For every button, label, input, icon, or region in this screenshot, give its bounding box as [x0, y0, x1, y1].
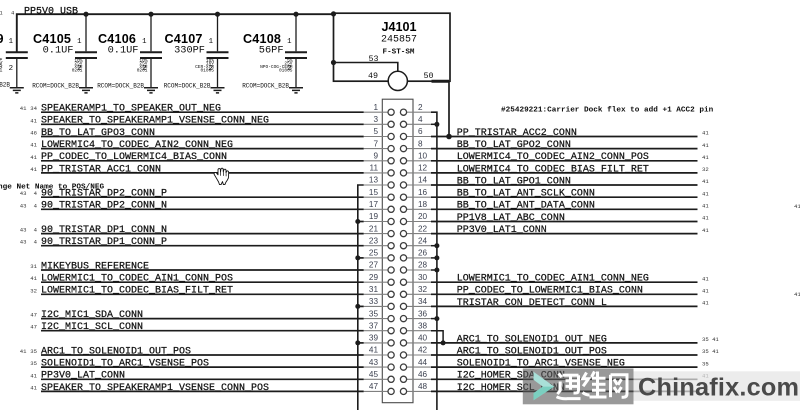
svg-text:ARC1_TO_SOLENOID1_OUT_POS: ARC1_TO_SOLENOID1_OUT_POS: [457, 346, 607, 357]
svg-text:0.1UF: 0.1UF: [108, 44, 139, 56]
net label I2C_HOMER_SDA_CONN: [457, 371, 565, 382]
part number 245857: [381, 34, 417, 45]
svg-text:4: 4: [34, 202, 38, 209]
net label 90_TRISTAR_DP1_CONN_N: [41, 225, 167, 236]
pin number 25: [369, 249, 379, 258]
net label SOLENOID1_TO_ARC1_VSENSE_POS: [41, 359, 209, 370]
wire pin 16 net BB_TO_LAT_ANT_SCLK_CONN: [431, 196, 698, 198]
wire pin 17 net 90_TRISTAR_DP2_CONN_N: [41, 208, 364, 210]
net label PP1V8_LAT_ABC_CONN: [457, 213, 565, 224]
pin 17 stub and contact: [364, 206, 395, 212]
pin number 24: [418, 236, 428, 245]
svg-text:39: 39: [369, 334, 379, 343]
pin 18 stub and contact: [400, 206, 431, 212]
svg-text:ARC1_TO_SOLENOID1_OUT_NEG: ARC1_TO_SOLENOID1_OUT_NEG: [457, 334, 607, 345]
svg-text:47: 47: [30, 312, 37, 319]
pin number 4: [418, 115, 423, 124]
svg-text:56PF: 56PF: [259, 44, 284, 56]
net label ARC1_TO_SOLENOID1_OUT_POS: [457, 346, 607, 357]
junction right bus pin 28: [434, 268, 439, 273]
watermark text WANG: [611, 375, 628, 397]
pin 7 stub and contact: [364, 146, 395, 152]
svg-text:RCOM=DOCK_B2B: RCOM=DOCK_B2B: [32, 83, 79, 90]
svg-text:RCOM=DOCK_B2B: RCOM=DOCK_B2B: [97, 83, 144, 90]
svg-text:LOWERMIC4_TO_CODEC_AIN2_CONN_N: LOWERMIC4_TO_CODEC_AIN2_CONN_NEG: [41, 140, 233, 151]
svg-text:245857: 245857: [381, 34, 417, 45]
page ref 32 pin 12: [702, 166, 709, 173]
svg-text:20: 20: [418, 212, 428, 221]
pin number 49: [368, 71, 378, 81]
pin 13 stub and contact: [364, 182, 395, 188]
wire pin 32 net PP_CODEC_TO_LOWERMIC1_BIAS_CONN: [431, 293, 698, 295]
wire pin 14 net BB_TO_LAT_GPO1_CONN: [431, 184, 698, 186]
pin number 33: [369, 297, 379, 306]
svg-text:50: 50: [424, 71, 434, 81]
svg-text:41: 41: [702, 227, 709, 234]
svg-text:41: 41: [702, 154, 709, 161]
svg-text:41: 41: [702, 300, 709, 307]
net label PP_TRISTAR_ACC2_CONN: [457, 128, 577, 139]
svg-text:2: 2: [209, 65, 213, 73]
pin number 10: [418, 152, 428, 161]
pin number 18: [418, 200, 428, 209]
svg-text:PP_TRISTAR_ACC1_CONN: PP_TRISTAR_ACC1_CONN: [41, 164, 161, 175]
pin number 1: [373, 103, 378, 112]
page ref 32 pin 31 col2: [30, 287, 37, 294]
wire pin 8 net BB_TO_LAT_GPO2_CONN: [431, 148, 698, 150]
wire pin 29 net LOWERMIC1_TO_CODEC_AIN1_CONN_POS: [41, 281, 364, 283]
pin 24 stub and contact: [400, 243, 431, 249]
svg-text:41: 41: [794, 291, 800, 298]
wire pin 34 net TRISTAR_CON_DETECT_CONN_L: [431, 305, 698, 307]
svg-text:10: 10: [418, 152, 428, 161]
pin 42 stub and contact: [400, 352, 431, 358]
svg-text:41: 41: [30, 154, 37, 161]
wire pin 22 net PP3V0_LAT1_CONN: [431, 233, 698, 235]
page ref 35 41 pin 42: [702, 348, 719, 355]
junction right bus pin 26: [434, 255, 439, 260]
watermark light band: [634, 371, 800, 401]
svg-text:4: 4: [11, 10, 15, 17]
page ref 41 pin 1 col1: [20, 105, 27, 112]
pin 21 stub and contact: [364, 231, 395, 237]
extra far page ref pin 18: [794, 203, 800, 210]
svg-text:41: 41: [30, 384, 37, 391]
wire pin 2 to right bus corner: [431, 112, 437, 410]
pin 40 stub and contact: [400, 340, 431, 346]
capacitor C4106: [97, 12, 162, 90]
svg-text:SPEAKER_TO_SPEAKERAMP1_VSENSE_: SPEAKER_TO_SPEAKERAMP1_VSENSE_CONN_NEG: [41, 116, 269, 127]
svg-text:#25429221:Carrier Dock flex to: #25429221:Carrier Dock flex to add +1 AC…: [501, 107, 714, 115]
pin number 37: [369, 321, 379, 330]
wire pin 13 to left bus corner: [358, 185, 364, 410]
page ref 46 pin 5 col2: [30, 130, 37, 137]
wire pin 33 to left bus: [358, 305, 364, 307]
pin number 28: [418, 261, 428, 270]
svg-text:I2C_MIC1_SDA_CONN: I2C_MIC1_SDA_CONN: [41, 310, 143, 321]
note Carrier Dock flex: [501, 107, 714, 115]
svg-text:22: 22: [418, 224, 428, 233]
svg-text:ARC1_TO_SOLENOID1_OUT_POS: ARC1_TO_SOLENOID1_OUT_POS: [41, 346, 191, 357]
wire pin 24 to right bus: [431, 245, 437, 247]
ground symbol for C4105: [79, 88, 93, 93]
wire pin 19 to left bus: [358, 221, 364, 223]
wire pin 48 net I2C_HOMER_SCL_CONN: [431, 390, 698, 392]
svg-text:41: 41: [702, 275, 709, 282]
wire pin 26 to right bus: [431, 257, 437, 259]
wire pin 44 net SOLENOID1_TO_ARC1_VSENSE_NEG: [431, 366, 698, 368]
wire pin 18 net BB_TO_LAT_ANT_DATA_CONN: [431, 208, 698, 210]
page ref 41 pin 45 col2: [30, 372, 37, 379]
svg-text:31: 31: [30, 263, 37, 270]
svg-text:41: 41: [702, 178, 709, 185]
net label LOWERMIC1_TO_CODEC_AIN1_CONN_NEG: [457, 274, 649, 285]
svg-text:BB_TO_LAT_ANT_SCLK_CONN: BB_TO_LAT_ANT_SCLK_CONN: [457, 189, 595, 200]
svg-text:12: 12: [418, 164, 428, 173]
svg-text:35: 35: [369, 309, 379, 318]
pin 45 stub and contact: [364, 376, 395, 382]
svg-text:MIKEYBUS_REFERENCE: MIKEYBUS_REFERENCE: [41, 261, 149, 272]
svg-text:RCOM=DOCK_B2B: RCOM=DOCK_B2B: [242, 83, 289, 90]
page ref 41 pin 11 col2: [30, 166, 37, 173]
svg-text:PP1V8_LAT_ABC_CONN: PP1V8_LAT_ABC_CONN: [457, 213, 565, 224]
pin 11 stub and contact: [364, 170, 395, 176]
ground symbol for C4109: [10, 88, 24, 93]
page ref 31 pin 27 col2: [30, 263, 37, 270]
wire pin 28 to right bus: [431, 269, 437, 271]
svg-text:14: 14: [418, 176, 428, 185]
pin number 34: [418, 297, 428, 306]
pin number 12: [418, 164, 428, 173]
svg-text:11: 11: [370, 164, 379, 173]
pin 1 stub and contact: [364, 109, 395, 115]
pin 47 stub and contact: [364, 388, 395, 394]
wire pin 40 net ARC1_TO_SOLENOID1_OUT_NEG: [431, 342, 698, 344]
svg-text:35 41: 35 41: [702, 336, 719, 343]
svg-text:40: 40: [418, 334, 428, 343]
svg-text:41: 41: [30, 117, 37, 124]
pin number 29: [369, 273, 379, 282]
svg-text:B2B: B2B: [0, 82, 10, 89]
svg-text:21: 21: [369, 224, 379, 233]
svg-text:47: 47: [30, 324, 37, 331]
page ref 35 41 pin 40: [702, 336, 719, 343]
net label ARC1_TO_SOLENOID1_OUT_POS: [41, 346, 191, 357]
pin number 42: [418, 346, 428, 355]
pin number 23: [369, 236, 379, 245]
page ref 41 pin 48: [702, 385, 709, 392]
svg-text:35: 35: [702, 360, 709, 367]
svg-text:43: 43: [20, 239, 27, 246]
net label PP_CODEC_TO_LOWERMIC4_BIAS_CONN: [41, 152, 227, 163]
svg-text:13: 13: [369, 176, 379, 185]
svg-text:PP3V0_LAT_CONN: PP3V0_LAT_CONN: [41, 371, 125, 382]
svg-text:35: 35: [30, 360, 37, 367]
watermark logo chevron: [534, 372, 555, 400]
pin 16 stub and contact: [400, 194, 431, 200]
pin number 39: [369, 334, 379, 343]
svg-text:43: 43: [20, 227, 27, 234]
page ref 41 pin 16: [702, 190, 709, 197]
ground symbol for C4107: [211, 88, 225, 93]
page ref 41 pin 10: [702, 154, 709, 161]
wire pin 3 net SPEAKER_TO_SPEAKERAMP1_VSENSE_CONN_NEG: [41, 123, 364, 125]
page ref 41 pin 22: [702, 227, 709, 234]
pin 26 stub and contact: [400, 255, 431, 261]
net label LOWERMIC4_TO_CODEC_BIAS_FILT_RET: [457, 164, 649, 175]
svg-text:32: 32: [418, 285, 428, 294]
mouse hand cursor: [214, 168, 229, 184]
wire pin 27 net MIKEYBUS_REFERENCE: [41, 269, 364, 271]
svg-text:4: 4: [34, 227, 38, 234]
svg-text:nge Net Name to POS/NEG: nge Net Name to POS/NEG: [0, 183, 104, 191]
svg-text:BB_TO_LAT_GPO3_CONN: BB_TO_LAT_GPO3_CONN: [41, 128, 155, 139]
wire pin 45 net PP3V0_LAT_CONN: [41, 378, 364, 380]
ground symbol for C4108: [289, 88, 303, 93]
ground symbol for C4106: [144, 88, 158, 93]
svg-text:41: 41: [702, 142, 709, 149]
svg-text:330PF: 330PF: [174, 44, 205, 56]
wire pin 23 net 90_TRISTAR_DP1_CONN_P: [41, 245, 364, 247]
wire pin 43 net SOLENOID1_TO_ARC1_VSENSE_POS: [41, 366, 364, 368]
wire pin 47 net SPEAKER_TO_SPEAKERAMP1_VSENSE_CONN_POS: [41, 390, 364, 392]
pin number 47: [369, 382, 379, 391]
svg-text:2: 2: [287, 65, 291, 73]
svg-text:1: 1: [0, 66, 3, 73]
junction right bus pin 24: [434, 243, 439, 248]
pin 19 stub and contact: [364, 218, 395, 224]
pin 39 stub and contact: [364, 340, 395, 346]
pin number 3: [373, 115, 378, 124]
svg-text:2: 2: [77, 65, 81, 73]
svg-text:47: 47: [369, 382, 379, 391]
svg-text:1: 1: [373, 103, 378, 112]
svg-text:1: 1: [209, 38, 214, 46]
svg-text:29: 29: [369, 273, 379, 282]
svg-text:Chinafix.com: Chinafix.com: [638, 374, 799, 402]
pin number 22: [418, 224, 428, 233]
svg-text:38: 38: [418, 321, 428, 330]
page ref 35 pin 43 col2: [30, 360, 37, 367]
svg-text:PP_CODEC_TO_LOWERMIC1_BIAS_CON: PP_CODEC_TO_LOWERMIC1_BIAS_CONN: [457, 286, 643, 297]
svg-text:25: 25: [369, 249, 379, 258]
svg-text:LOWERMIC1_TO_CODEC_AIN1_CONN_N: LOWERMIC1_TO_CODEC_AIN1_CONN_NEG: [457, 274, 649, 285]
net label 90_TRISTAR_DP1_CONN_P: [41, 237, 167, 248]
page ref 43 pin 23 col1: [20, 239, 27, 246]
pin number 7: [373, 139, 378, 148]
pin 14 stub and contact: [400, 182, 431, 188]
svg-text:LOWERMIC4_TO_CODEC_AIN2_CONN_P: LOWERMIC4_TO_CODEC_AIN2_CONN_POS: [457, 152, 649, 163]
pin number 5: [373, 127, 378, 136]
pin number 2: [418, 103, 423, 112]
junction at box top-left corner: [331, 11, 336, 16]
watermark text Chinafix.com: [638, 374, 799, 402]
junction pin38/pin40: [441, 340, 446, 345]
page ref 41 pin 41 col1: [20, 348, 27, 355]
svg-text:PP5V0_USB: PP5V0_USB: [24, 6, 78, 17]
page ref 4 pin 17 col2: [34, 202, 38, 209]
net label MIKEYBUS_REFERENCE: [41, 261, 149, 272]
pin number 41: [369, 346, 379, 355]
extra far page ref pin 32: [794, 291, 800, 298]
net label LOWERMIC1_TO_CODEC_AIN1_CONN_POS: [41, 274, 233, 285]
net label BB_TO_LAT_GPO2_CONN: [457, 140, 571, 151]
page ref 43 pin 15 col1: [20, 190, 27, 197]
pin 22 stub and contact: [400, 231, 431, 237]
wire pin 9 net PP_CODEC_TO_LOWERMIC4_BIAS_CONN: [41, 160, 364, 162]
svg-text:LOWERMIC1_TO_CODEC_BIAS_FILT_R: LOWERMIC1_TO_CODEC_BIAS_FILT_RET: [41, 286, 233, 297]
pin 36 stub and contact: [400, 316, 431, 322]
junction pin 6 net with shield wire: [446, 134, 452, 140]
svg-text:41: 41: [30, 372, 37, 379]
svg-text:7: 7: [373, 139, 378, 148]
page ref 41 pin 3 col2: [30, 117, 37, 124]
svg-text:41: 41: [30, 275, 37, 282]
pin 41 stub and contact: [364, 352, 395, 358]
wire pin 31 net LOWERMIC1_TO_CODEC_BIAS_FILT_RET: [41, 293, 364, 295]
pin number 16: [418, 188, 428, 197]
pin number 11: [370, 164, 379, 173]
wire from shield to pin6 net: [448, 81, 450, 136]
net label 90_TRISTAR_DP2_CONN_P: [41, 189, 167, 200]
svg-text:35 41: 35 41: [702, 348, 719, 355]
net PP5V0_USB wire: [17, 14, 334, 51]
svg-text:BB_TO_LAT_GPO1_CONN: BB_TO_LAT_GPO1_CONN: [457, 176, 571, 187]
svg-text:24: 24: [418, 236, 428, 245]
net label PP3V0_LAT_CONN: [41, 371, 125, 382]
svg-text:I2C_MIC1_SCL_CONN: I2C_MIC1_SCL_CONN: [41, 322, 143, 333]
svg-text:F-ST-SM: F-ST-SM: [383, 49, 415, 57]
pin number 17: [369, 200, 379, 209]
pin number 27: [369, 261, 379, 270]
svg-text:41: 41: [702, 190, 709, 197]
svg-text:19: 19: [369, 212, 379, 221]
page ref 4 pin 15 col2: [34, 190, 38, 197]
pin 28 stub and contact: [400, 267, 431, 273]
pin number 40: [418, 334, 428, 343]
page ref 41 pin 14: [702, 178, 709, 185]
junction left bus pin 25: [355, 255, 360, 260]
pin number 13: [369, 176, 379, 185]
junction left bus pin 33: [355, 304, 360, 309]
svg-text:34: 34: [30, 105, 37, 112]
pin 12 stub and contact: [400, 170, 431, 176]
page ref 34 pin 1 col2: [30, 105, 37, 112]
svg-text:41: 41: [20, 348, 27, 355]
pin 23 stub and contact: [364, 243, 395, 249]
pin 44 stub and contact: [400, 364, 431, 370]
pin number 30: [418, 273, 428, 282]
svg-text:SPEAKERAMP1_TO_SPEAKER_OUT_NEG: SPEAKERAMP1_TO_SPEAKER_OUT_NEG: [41, 104, 221, 115]
pin 25 stub and contact: [364, 255, 395, 261]
svg-text:SOLENOID1_TO_ARC1_VSENSE_NEG: SOLENOID1_TO_ARC1_VSENSE_NEG: [457, 359, 625, 370]
svg-text:53: 53: [368, 54, 378, 64]
wire pin 20 net PP1V8_LAT_ABC_CONN: [431, 221, 698, 223]
svg-text:37: 37: [369, 321, 379, 330]
wire pin 30 net LOWERMIC1_TO_CODEC_AIN1_CONN_NEG: [431, 281, 698, 283]
wire pin 1 net SPEAKERAMP1_TO_SPEAKER_OUT_NEG: [41, 111, 364, 113]
junction on left edge pin 53: [331, 60, 336, 65]
page ref 4 pin 23 col2: [34, 239, 38, 246]
wire pin 25 to left bus: [358, 257, 364, 259]
part type F-ST-SM: [383, 49, 415, 57]
svg-text:1: 1: [77, 38, 82, 46]
wire pin 35 net I2C_MIC1_SDA_CONN: [41, 318, 364, 320]
page ref 41 pin 18: [702, 203, 709, 210]
svg-text:27: 27: [369, 261, 379, 270]
svg-text:18: 18: [418, 200, 428, 209]
page ref 41 pin 29 col2: [30, 275, 37, 282]
net label I2C_MIC1_SDA_CONN: [41, 310, 143, 321]
net label PP5V0_USB: [24, 6, 78, 17]
page ref 47 pin 35 col2: [30, 312, 37, 319]
svg-text:45: 45: [369, 370, 379, 379]
watermark dark band: [523, 369, 634, 405]
svg-text:J4101: J4101: [381, 20, 416, 34]
svg-text:28: 28: [418, 261, 428, 270]
svg-text:30: 30: [418, 273, 428, 282]
svg-text:21: 21: [0, 10, 3, 17]
pin 37 stub and contact: [364, 328, 395, 334]
net label 90_TRISTAR_DP2_CONN_N: [41, 201, 167, 212]
svg-text:43: 43: [20, 202, 27, 209]
pin 5 stub and contact: [364, 133, 395, 139]
svg-text:2: 2: [9, 65, 13, 73]
shield circle: [388, 71, 407, 90]
svg-text:17: 17: [369, 200, 379, 209]
net label SPEAKERAMP1_TO_SPEAKER_OUT_NEG: [41, 104, 221, 115]
svg-text:90_TRISTAR_DP1_CONN_N: 90_TRISTAR_DP1_CONN_N: [41, 225, 167, 236]
net label SPEAKER_TO_SPEAKERAMP1_VSENSE_CONN_POS: [41, 383, 269, 394]
pin number 26: [418, 249, 428, 258]
svg-text:BB_TO_LAT_ANT_DATA_CONN: BB_TO_LAT_ANT_DATA_CONN: [457, 201, 595, 212]
pin 48 stub and contact: [400, 388, 431, 394]
junction right bus pin 4: [434, 122, 439, 127]
pin number 36: [418, 309, 428, 318]
pin 4 stub and contact: [400, 121, 431, 127]
net label SPEAKER_TO_SPEAKERAMP1_VSENSE_CONN_NEG: [41, 116, 269, 127]
svg-text:34: 34: [418, 297, 428, 306]
pin number 45: [369, 370, 379, 379]
connector shield loop J4101: [334, 13, 451, 81]
net label BB_TO_LAT_ANT_DATA_CONN: [457, 201, 595, 212]
pin number 20: [418, 212, 428, 221]
net label PP_TRISTAR_ACC1_CONN: [41, 164, 161, 175]
pin 33 stub and contact: [364, 303, 395, 309]
net label LOWERMIC4_TO_CODEC_AIN2_CONN_POS: [457, 152, 649, 163]
pin number 53: [368, 54, 378, 64]
page ref 41 pin 20: [702, 215, 709, 222]
net label PP3V0_LAT1_CONN: [457, 225, 547, 236]
svg-text:32: 32: [702, 166, 709, 173]
pin 10 stub and contact: [400, 158, 431, 164]
net label BB_TO_LAT_ANT_SCLK_CONN: [457, 189, 595, 200]
svg-text:41: 41: [369, 346, 379, 355]
net label LOWERMIC4_TO_CODEC_AIN2_CONN_NEG: [41, 140, 233, 151]
capacitor C4108: [242, 12, 307, 90]
svg-text:LOWERMIC1_TO_CODEC_AIN1_CONN_P: LOWERMIC1_TO_CODEC_AIN1_CONN_POS: [41, 274, 233, 285]
pin 8 stub and contact: [400, 146, 431, 152]
pin number 15: [369, 188, 379, 197]
pin number 32: [418, 285, 428, 294]
svg-text:15: 15: [369, 188, 379, 197]
svg-text:41: 41: [20, 105, 27, 112]
pin number 6: [418, 127, 423, 136]
net label PP_CODEC_TO_LOWERMIC1_BIAS_CONN: [457, 286, 643, 297]
pin 32 stub and contact: [400, 291, 431, 297]
svg-text:32: 32: [30, 287, 37, 294]
wire pin 41 net ARC1_TO_SOLENOID1_OUT_POS: [41, 354, 364, 356]
